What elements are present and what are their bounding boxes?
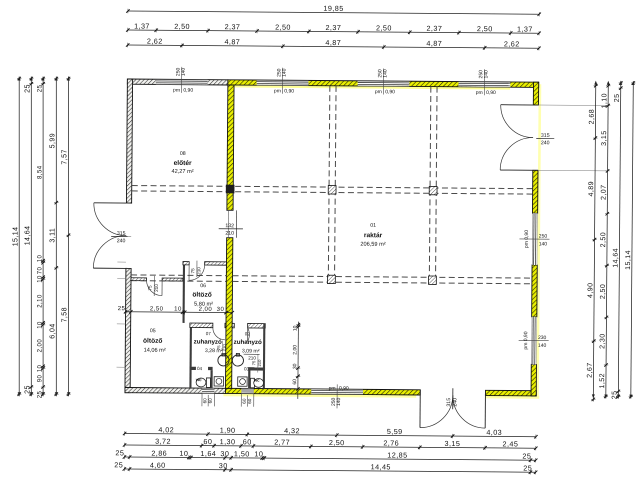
svg-text:pm: pm <box>173 88 180 94</box>
dashed axis pair vertical 2 <box>429 87 431 283</box>
svg-text:0,90: 0,90 <box>486 90 496 96</box>
svg-text:pm: pm <box>375 89 382 95</box>
svg-text:14,64: 14,64 <box>25 226 32 246</box>
svg-text:3,72: 3,72 <box>155 437 171 446</box>
svg-text:19,85: 19,85 <box>323 4 343 13</box>
svg-text:1,10: 1,10 <box>601 93 608 108</box>
dashed axis pair A (horizontal, upper) <box>132 186 533 189</box>
svg-text:140: 140 <box>282 68 288 77</box>
svg-text:25: 25 <box>25 84 32 93</box>
window 230/140 in right wall <box>532 317 537 365</box>
svg-text:25: 25 <box>523 464 532 473</box>
svg-text:250: 250 <box>539 234 548 240</box>
right wall segments (yellow) <box>533 82 538 105</box>
yellow centre wall between eloter/raktar, upper part <box>227 85 234 210</box>
svg-text:1,30: 1,30 <box>220 437 236 446</box>
svg-text:140: 140 <box>383 69 389 78</box>
svg-text:2,50: 2,50 <box>150 306 164 312</box>
dimension line bottom main walls <box>124 469 535 472</box>
room 02 top wall with door gap <box>232 323 234 328</box>
svg-text:4,32: 4,32 <box>284 426 300 435</box>
left door label 315/240 <box>111 235 131 237</box>
svg-text:wc: wc <box>195 377 202 382</box>
tiny door labels shower doors <box>222 341 224 355</box>
column blob on yellow wall at axis A <box>226 185 235 194</box>
svg-text:2,37: 2,37 <box>426 24 442 33</box>
dimension line top openings <box>128 30 539 33</box>
svg-text:14,45: 14,45 <box>371 462 391 471</box>
dimension line left halves <box>68 77 70 397</box>
svg-text:15,14: 15,14 <box>625 250 632 270</box>
dimension line top total 19,85 <box>128 11 539 14</box>
svg-text:2,50: 2,50 <box>275 23 291 32</box>
svg-text:3,15: 3,15 <box>445 439 461 448</box>
svg-text:8,54: 8,54 <box>37 165 43 179</box>
svg-text:4,87: 4,87 <box>325 38 341 47</box>
svg-text:10: 10 <box>254 449 263 458</box>
column <box>428 276 436 284</box>
dashed axis pair B (horizontal, lower) <box>131 274 226 277</box>
witness lines + 60/60 labels of small bottom windows <box>201 393 203 406</box>
window W2 250/140 in top wall <box>257 81 309 86</box>
svg-text:60: 60 <box>292 379 298 385</box>
svg-text:7,57: 7,57 <box>62 149 69 164</box>
svg-text:210: 210 <box>248 355 256 360</box>
window W1 250/140 in top wall <box>156 80 208 85</box>
svg-text:07: 07 <box>206 331 212 336</box>
shower symbol room 07 <box>218 355 229 366</box>
column <box>429 186 437 194</box>
svg-text:pm 0,90: pm 0,90 <box>523 331 529 349</box>
svg-text:2,37: 2,37 <box>325 23 341 32</box>
svg-text:1,52: 1,52 <box>599 373 606 388</box>
svg-text:4,02: 4,02 <box>158 425 174 434</box>
bottom double door 315/240 (opens outward/down) <box>419 390 421 428</box>
bottom wall yellow part right of door <box>485 390 536 396</box>
dimension line bottom openings <box>125 445 536 448</box>
dimension line right openings <box>606 84 608 399</box>
left entrance door 315/240 leaf lines and swing arcs (opens outward) <box>94 202 127 204</box>
svg-text:75: 75 <box>147 285 152 291</box>
svg-text:2,00: 2,00 <box>199 307 213 313</box>
window 250/140 in bottom wall <box>311 389 363 394</box>
svg-text:2,77: 2,77 <box>274 438 290 447</box>
svg-text:210: 210 <box>196 267 201 275</box>
svg-text:2,68: 2,68 <box>589 109 596 124</box>
svg-text:zuhanyzó: zuhanyzó <box>234 339 262 346</box>
dimension line right inner <box>618 81 620 399</box>
left wall below door <box>125 268 131 392</box>
WC toilet left (room 04) <box>206 378 210 388</box>
svg-text:2,67: 2,67 <box>587 362 594 377</box>
right wall window1 labels <box>519 238 549 240</box>
WC toilet right (room 03) <box>250 378 254 388</box>
svg-text:315: 315 <box>541 133 550 139</box>
svg-text:2,07: 2,07 <box>601 184 608 199</box>
svg-text:öltöző: öltöző <box>192 292 211 299</box>
svg-text:1,90: 1,90 <box>220 426 236 435</box>
svg-text:30: 30 <box>220 449 229 458</box>
svg-text:3,15: 3,15 <box>601 130 608 145</box>
svg-text:6,04: 6,04 <box>50 323 57 338</box>
svg-text:10: 10 <box>174 307 182 313</box>
svg-text:25: 25 <box>115 448 124 457</box>
yellow centre wall lower part <box>225 238 232 389</box>
svg-text:2,50: 2,50 <box>600 232 607 247</box>
yellow highlighter halo around new (yellow) walls <box>536 84 541 398</box>
dimension line interior room widths <box>126 311 233 314</box>
svg-text:2,45: 2,45 <box>503 439 519 448</box>
top wall: yellow (new) part <box>228 80 539 88</box>
svg-text:140: 140 <box>538 343 547 349</box>
svg-text:10: 10 <box>37 365 43 373</box>
room 05 door swing <box>146 280 162 296</box>
svg-text:3,09 m²: 3,09 m² <box>242 348 260 354</box>
svg-text:10: 10 <box>293 325 299 331</box>
svg-text:12,85: 12,85 <box>387 450 407 459</box>
window W3 size label 250/140 and parapet pm 0,90 <box>382 69 384 95</box>
washbasin left lobby <box>214 377 223 386</box>
svg-text:60: 60 <box>203 437 212 446</box>
svg-text:25: 25 <box>114 460 123 469</box>
svg-text:wc: wc <box>253 378 260 383</box>
svg-text:2,30: 2,30 <box>599 333 606 348</box>
right double door 315/240 leaf lines and swing arcs (opens inward) <box>501 104 539 106</box>
svg-text:1,37: 1,37 <box>134 21 150 30</box>
bottom wall grey part <box>125 387 226 393</box>
window W3 250/140 in top wall <box>358 81 410 86</box>
svg-text:25: 25 <box>614 93 621 102</box>
window W1 size label 250/140 and parapet pm 0,90 <box>181 67 183 93</box>
svg-text:210: 210 <box>257 359 262 367</box>
svg-text:2,10: 2,10 <box>37 294 43 308</box>
svg-text:08: 08 <box>180 151 186 157</box>
dimension line left total <box>18 77 20 397</box>
WC cubicle wall right <box>248 370 250 388</box>
svg-text:7,58: 7,58 <box>62 307 69 322</box>
wall between room 05 and 06 <box>182 262 185 323</box>
svg-text:0,90: 0,90 <box>385 89 395 95</box>
door label 75/210 room 06 <box>196 261 198 277</box>
svg-text:2,50: 2,50 <box>329 438 345 447</box>
svg-text:3,28 m²: 3,28 m² <box>205 348 223 354</box>
svg-text:4,03: 4,03 <box>486 428 502 437</box>
svg-text:10: 10 <box>37 321 43 329</box>
room 06 door swing <box>189 265 205 281</box>
svg-text:25: 25 <box>522 452 531 461</box>
column <box>328 186 336 194</box>
svg-text:315: 315 <box>117 231 126 237</box>
svg-text:3,11: 3,11 <box>50 228 57 243</box>
witness lines from interior walls to left dims <box>117 261 126 263</box>
svg-text:60: 60 <box>208 398 213 404</box>
svg-text:240: 240 <box>541 140 550 146</box>
svg-text:10: 10 <box>179 449 188 458</box>
svg-text:5,59: 5,59 <box>387 427 403 436</box>
svg-text:02: 02 <box>245 331 251 336</box>
svg-text:140: 140 <box>336 397 342 406</box>
window W4 size label 250/140 and parapet pm 0,90 <box>483 69 485 95</box>
svg-text:4,60: 4,60 <box>150 461 166 470</box>
svg-text:25: 25 <box>37 391 43 399</box>
svg-text:1,50: 1,50 <box>234 449 250 458</box>
svg-text:2,00: 2,00 <box>37 339 43 353</box>
svg-text:75: 75 <box>251 360 256 365</box>
dimension line top axes <box>128 45 539 48</box>
svg-text:15,14: 15,14 <box>12 227 19 247</box>
dimension line bottom walls detail <box>124 457 535 460</box>
svg-text:42,27 m²: 42,27 m² <box>172 169 194 175</box>
dashed axis pair vertical 1 <box>328 86 330 282</box>
shower rooms top wall (left of yellow wall) with door gap <box>190 323 213 328</box>
top wall: grey (existing) part <box>127 79 228 85</box>
svg-text:206,59 m²: 206,59 m² <box>360 242 385 248</box>
svg-text:70: 70 <box>37 267 43 275</box>
WC cubicle wall left <box>210 370 212 388</box>
svg-text:10: 10 <box>37 275 43 283</box>
svg-text:14,06 m²: 14,06 m² <box>144 348 166 354</box>
interior vertical dim near room 02 <box>297 322 300 399</box>
svg-text:25: 25 <box>118 306 126 312</box>
dimension line left inner <box>30 77 32 397</box>
svg-text:2,86: 2,86 <box>151 449 167 458</box>
svg-text:25: 25 <box>37 85 43 93</box>
small window 60/60 left in bottom wall <box>202 389 214 393</box>
svg-text:60: 60 <box>243 437 252 446</box>
window W2 size label 250/140 and parapet pm 0,90 <box>281 68 283 94</box>
svg-text:pm: pm <box>329 386 336 392</box>
svg-text:2,50: 2,50 <box>376 23 392 32</box>
svg-text:1,37: 1,37 <box>517 24 533 33</box>
dimension line right total <box>631 81 633 399</box>
svg-text:75: 75 <box>190 268 195 274</box>
svg-text:60: 60 <box>242 398 247 404</box>
label 132/210 <box>219 228 243 230</box>
svg-text:raktár: raktár <box>364 232 383 239</box>
bottom window labels pm 0,90 / 250/140 <box>336 384 338 408</box>
svg-text:30: 30 <box>219 461 228 470</box>
dimension line bottom axes <box>125 433 536 436</box>
room 02 right wall <box>263 324 266 389</box>
svg-text:pm: pm <box>476 90 483 96</box>
svg-text:2,37: 2,37 <box>225 22 241 31</box>
window W4 250/140 in top wall <box>458 82 510 87</box>
svg-text:2,76: 2,76 <box>383 438 399 447</box>
shower symbol room 02 <box>232 355 243 366</box>
svg-text:zuhanyzó: zuhanyzó <box>194 339 222 346</box>
svg-text:210: 210 <box>154 284 159 292</box>
door 132/210 in yellow centre wall <box>227 209 233 211</box>
svg-text:2,62: 2,62 <box>147 37 163 46</box>
svg-text:140: 140 <box>539 241 548 247</box>
svg-text:előtér: előtér <box>174 160 192 167</box>
svg-text:90: 90 <box>37 375 43 383</box>
svg-text:5,99: 5,99 <box>50 133 57 148</box>
WC block top wall left <box>190 367 196 370</box>
svg-text:140: 140 <box>181 68 187 77</box>
svg-text:230: 230 <box>538 335 547 341</box>
svg-text:pm: pm <box>274 88 281 94</box>
svg-text:240: 240 <box>452 398 458 407</box>
svg-text:01: 01 <box>370 223 376 229</box>
WC block top wall right <box>248 367 265 370</box>
svg-text:4,87: 4,87 <box>426 39 442 48</box>
svg-text:4,90: 4,90 <box>587 282 594 297</box>
dimension line left door <box>55 77 57 397</box>
svg-text:10: 10 <box>37 255 43 263</box>
svg-text:60: 60 <box>247 398 252 404</box>
svg-text:06: 06 <box>200 283 206 289</box>
svg-text:30: 30 <box>292 363 298 369</box>
svg-text:0,90: 0,90 <box>339 386 349 392</box>
svg-text:30: 30 <box>217 307 225 313</box>
svg-text:pm 0,90: pm 0,90 <box>524 230 530 248</box>
svg-text:05: 05 <box>150 328 156 334</box>
svg-text:2,50: 2,50 <box>477 24 493 33</box>
room 05 top wall with door <box>131 278 147 281</box>
svg-text:2,50: 2,50 <box>174 22 190 31</box>
small window 60/60 right in bottom wall <box>241 389 253 393</box>
svg-text:03: 03 <box>244 366 250 371</box>
wall between room 05 and shower block <box>189 323 192 388</box>
washbasin right lobby <box>238 377 247 386</box>
svg-text:315: 315 <box>446 398 452 407</box>
svg-text:1,64: 1,64 <box>200 449 216 458</box>
right door witness lines to dimension lines <box>539 104 607 107</box>
svg-text:2,50: 2,50 <box>600 284 607 299</box>
dimension line left walls detail <box>42 77 44 397</box>
svg-text:132: 132 <box>225 223 234 229</box>
svg-text:4,87: 4,87 <box>224 37 240 46</box>
svg-text:04: 04 <box>197 366 203 371</box>
svg-text:2,00: 2,00 <box>292 345 298 355</box>
dimension line right axes <box>593 84 595 402</box>
right door label 315/240 <box>536 137 554 139</box>
column <box>327 275 335 283</box>
room 06 top wall with door <box>183 262 189 265</box>
svg-text:140: 140 <box>483 70 489 79</box>
right wall window2 labels <box>519 339 549 341</box>
svg-text:0,90: 0,90 <box>183 88 193 94</box>
svg-text:öltöző: öltöző <box>143 338 162 345</box>
door label 75/210 room 05 <box>153 276 155 296</box>
bottom wall yellow part left of door <box>225 388 420 395</box>
svg-text:210: 210 <box>225 231 234 237</box>
svg-text:240: 240 <box>117 238 126 244</box>
svg-text:0,90: 0,90 <box>284 88 294 94</box>
svg-text:2,62: 2,62 <box>504 39 520 48</box>
svg-text:60: 60 <box>202 398 207 404</box>
window 250/140 in right wall <box>533 213 538 265</box>
svg-text:4,89: 4,89 <box>588 181 595 196</box>
left wall above door <box>126 79 132 203</box>
svg-text:14,64: 14,64 <box>613 248 620 268</box>
